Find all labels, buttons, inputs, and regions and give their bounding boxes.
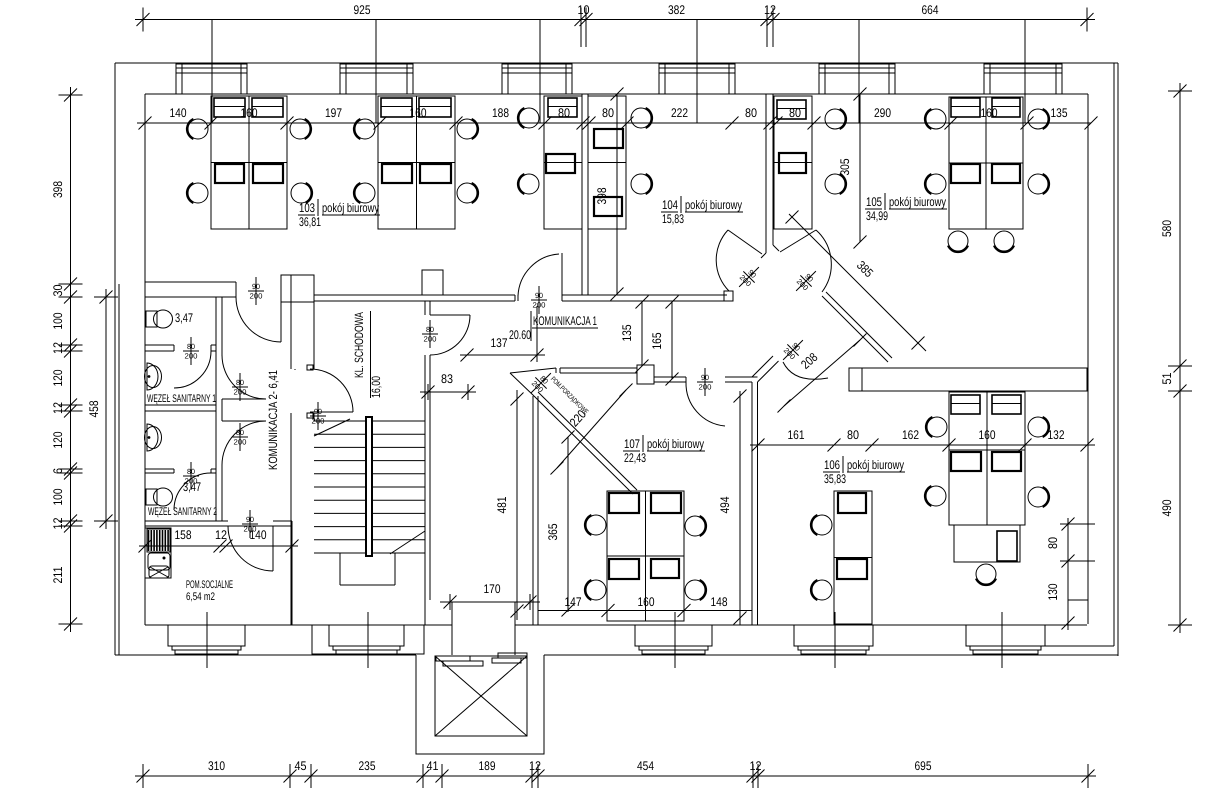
svg-text:160: 160: [978, 428, 995, 442]
elevator alcove walls: [451, 602, 453, 655]
svg-text:80: 80: [745, 106, 757, 120]
door room107: [686, 382, 725, 426]
dim room104 398 vertical: [616, 94, 618, 295]
wall room103 bottom over sanitary: [145, 281, 236, 283]
wall room107 top diagonal cap: [752, 356, 773, 377]
toilet WC1: [146, 311, 157, 327]
svg-text:160: 160: [637, 595, 654, 609]
wall room106 top block y368-391: [849, 368, 1087, 391]
svg-text:148: 148: [710, 595, 727, 609]
dim 165 vertical corridor: [671, 302, 673, 379]
svg-text:165: 165: [650, 332, 664, 349]
dim interior top rooms: [137, 122, 1091, 124]
svg-text:83: 83: [441, 372, 453, 386]
elevator door right: [498, 653, 527, 658]
wall stairs right x425-430: [424, 301, 426, 315]
wall sanitary right vertical x216-222: [215, 297, 217, 521]
svg-text:160: 160: [240, 106, 257, 120]
svg-text:35,83: 35,83: [824, 472, 846, 486]
svg-text:12: 12: [51, 517, 65, 529]
wall outer right inner line: [1113, 63, 1115, 646]
dim 80 130 room106 interior: [1067, 518, 1069, 630]
wall outer top: [115, 62, 1118, 64]
svg-text:105: 105: [866, 195, 882, 209]
door junction left arc: [716, 230, 729, 291]
svg-text:365: 365: [546, 523, 560, 540]
dim 494 vertical room106: [739, 391, 741, 625]
room106 bottom-right notch: [1067, 600, 1069, 624]
wall inner right: [1087, 94, 1089, 624]
door pom socjalne: [272, 526, 274, 571]
svg-text:80: 80: [1046, 537, 1060, 549]
svg-text:12: 12: [764, 3, 776, 17]
svg-text:30: 30: [51, 284, 65, 296]
dim top window extension lines: [211, 20, 213, 124]
wall 104/105 end notch: [761, 253, 766, 258]
svg-text:147: 147: [564, 595, 581, 609]
svg-text:pokój biurowy: pokój biurowy: [685, 198, 743, 212]
dim room107 bottom chain: [602, 604, 615, 617]
room105 desk cluster right: [949, 97, 1023, 229]
svg-text:398: 398: [595, 187, 609, 204]
svg-text:pokój biurowy: pokój biurowy: [889, 195, 947, 209]
svg-text:120: 120: [51, 431, 65, 448]
window top W1: [176, 63, 247, 65]
dim top wall extension lines: [580, 20, 582, 47]
dim chain right: [1179, 83, 1181, 633]
svg-text:290: 290: [874, 106, 891, 120]
svg-text:170: 170: [483, 582, 500, 596]
door junction right arc: [816, 230, 831, 292]
wall corridor/room107 x533-538: [532, 396, 534, 625]
svg-text:100: 100: [51, 488, 65, 505]
corner block KOM1 junction: [724, 291, 733, 301]
svg-text:305: 305: [838, 158, 852, 175]
svg-text:pokój biurowy: pokój biurowy: [647, 437, 705, 451]
svg-text:695: 695: [914, 759, 931, 773]
window bottom B3: [635, 625, 712, 646]
svg-text:120: 120: [51, 369, 65, 386]
svg-text:162: 162: [902, 428, 919, 442]
svg-text:3,47: 3,47: [175, 311, 193, 325]
svg-text:12: 12: [215, 528, 227, 542]
svg-text:490: 490: [1160, 499, 1174, 516]
window top W5: [819, 63, 895, 65]
room103 desk cluster 2: [378, 96, 455, 229]
elevator car: [435, 656, 527, 736]
svg-text:41: 41: [426, 759, 438, 773]
svg-text:KOMUNIKACJA 1: KOMUNIKACJA 1: [533, 314, 597, 328]
stair window recess: [312, 625, 424, 654]
dim 481 vertical corridor: [516, 390, 518, 620]
kitchen unit pom socjalne: [145, 528, 171, 578]
svg-text:12: 12: [749, 759, 761, 773]
svg-text:80: 80: [847, 428, 859, 442]
staircase break lines: [314, 419, 350, 436]
window bottom B5: [966, 625, 1045, 646]
svg-text:188: 188: [492, 106, 509, 120]
dim chain bottom: [135, 775, 1096, 777]
room106 chairs right: [927, 417, 947, 437]
window bottom B4: [794, 625, 873, 646]
svg-text:398: 398: [51, 181, 65, 198]
svg-text:34,99: 34,99: [866, 209, 888, 223]
room107 desk cluster: [607, 491, 684, 621]
wall stairs left x295-314: [290, 302, 292, 369]
svg-text:80: 80: [789, 106, 801, 120]
dim 135 vertical corridor: [641, 302, 643, 366]
room105 chairs cluster: [926, 109, 946, 129]
wall outer left inner line: [118, 284, 120, 655]
wall toilet1/sink1 y345-351: [145, 344, 174, 346]
svg-text:140: 140: [249, 528, 266, 542]
door storage: [525, 367, 556, 398]
room105 desk left: [774, 96, 812, 229]
svg-text:235: 235: [358, 759, 375, 773]
stairs jamb notches: [307, 365, 313, 370]
svg-text:580: 580: [1160, 220, 1174, 237]
room103 chairs cluster1: [188, 119, 208, 139]
svg-text:140: 140: [169, 106, 186, 120]
dim chain left: [70, 87, 72, 632]
svg-text:494: 494: [718, 496, 732, 513]
room103 desk cluster 1: [211, 96, 287, 229]
svg-text:pokój biurowy: pokój biurowy: [322, 201, 380, 215]
window bottom B1: [168, 625, 245, 646]
svg-text:pokój biurowy: pokój biurowy: [847, 458, 905, 472]
wall room107 top y377-382: [654, 376, 686, 378]
room105 chairs left: [825, 109, 845, 129]
toilet WC2: [146, 489, 157, 505]
door room103 to KOM2: [280, 297, 282, 342]
wall pom right x292: [291, 521, 293, 625]
svg-text:107: 107: [624, 437, 640, 451]
wall room107/106 x752-757.5: [751, 382, 753, 625]
window bottom B2: [329, 625, 404, 646]
flue block room103: [422, 270, 443, 295]
svg-text:382: 382: [668, 3, 685, 17]
svg-text:45: 45: [294, 759, 306, 773]
svg-text:KOMUNIKACJA 2- 6,41: KOMUNIKACJA 2- 6,41: [266, 370, 280, 470]
wall outer right: [1117, 63, 1119, 656]
wall toilet2/pom y521-526: [145, 520, 222, 522]
svg-text:12: 12: [51, 342, 65, 354]
dim pom socjalne chain: [139, 545, 298, 547]
svg-text:KL. SCHODOWA: KL. SCHODOWA: [352, 312, 366, 378]
svg-text:12: 12: [51, 402, 65, 414]
dim 220 diagonal: [557, 390, 626, 468]
svg-text:664: 664: [921, 3, 938, 17]
door toilet2: [174, 473, 211, 510]
svg-text:130: 130: [1046, 583, 1060, 600]
wall sink2/toilet2 y469-473: [145, 468, 174, 470]
svg-text:160: 160: [409, 106, 426, 120]
svg-text:POM.SOCJALNE: POM.SOCJALNE: [186, 579, 233, 591]
wall outer bottom: [115, 654, 416, 656]
staircase treads: [314, 420, 366, 422]
svg-text:80: 80: [558, 106, 570, 120]
dim 170 elevator: [440, 601, 540, 603]
room107 chairs: [586, 515, 606, 535]
sink 1: [147, 363, 158, 390]
storage top wall double: [560, 367, 637, 369]
svg-text:222: 222: [671, 106, 688, 120]
svg-text:12: 12: [529, 759, 541, 773]
wall room104/105 x766-773: [765, 94, 767, 253]
room106 desk left column: [834, 491, 872, 624]
svg-text:20.60: 20.60: [509, 328, 531, 342]
svg-text:103: 103: [299, 201, 315, 215]
wall pier KOM2/stairs top block: [281, 275, 314, 302]
wall sink1/sink2 y405-411: [145, 404, 216, 406]
svg-text:100: 100: [51, 312, 65, 329]
bottom-right wall lines: [1045, 645, 1114, 647]
window top W3: [502, 63, 572, 65]
wall room103/104 x582-588: [581, 94, 583, 295]
svg-text:3,47: 3,47: [183, 480, 201, 494]
svg-text:80: 80: [602, 106, 614, 120]
room104 chairs left: [519, 108, 539, 128]
svg-text:10: 10: [577, 3, 589, 17]
svg-text:36,81: 36,81: [299, 215, 321, 229]
door stairs to corridor: [430, 314, 470, 316]
svg-text:104: 104: [662, 198, 678, 212]
dim left 458 chain: [105, 289, 107, 529]
svg-text:WĘZEŁ SANITARNY 2: WĘZEŁ SANITARNY 2: [148, 506, 217, 518]
door toilet1: [174, 351, 211, 388]
window top W6: [984, 63, 1062, 65]
wall corridor top right segment: [562, 294, 727, 296]
svg-text:161: 161: [787, 428, 804, 442]
dim 208 diagonal: [784, 340, 860, 406]
room103 chairs cluster2: [355, 119, 375, 139]
svg-text:458: 458: [87, 400, 101, 417]
wall inner bottom: [145, 624, 452, 626]
room106 side table: [954, 525, 1020, 562]
wall stairs top y295-301: [314, 294, 515, 296]
svg-text:189: 189: [478, 759, 495, 773]
wall inner left: [144, 94, 146, 625]
room104 desk left: [544, 96, 582, 229]
svg-text:454: 454: [637, 759, 654, 773]
staircase landing below: [339, 553, 341, 585]
dim room105 305 vertical: [859, 94, 861, 242]
window top W2: [340, 63, 413, 65]
svg-text:481: 481: [495, 496, 509, 513]
door KOM2 to stairs: [310, 411, 353, 413]
dim 137 corridor: [460, 354, 545, 356]
block at 135 dim: [637, 365, 654, 384]
svg-text:22,43: 22,43: [624, 451, 646, 465]
dim chain top: [135, 19, 1095, 21]
svg-text:51: 51: [1160, 372, 1174, 384]
svg-text:15,83: 15,83: [662, 212, 684, 226]
room107 floor dim line y610.5: [538, 610, 752, 612]
window top W4: [659, 63, 735, 65]
dim 365 vertical corridor: [567, 437, 569, 612]
wall inner top: [145, 93, 1088, 95]
svg-text:158: 158: [174, 528, 191, 542]
storage hypotenuse diagonal wall: [534, 396, 633, 494]
svg-text:6,54 m2: 6,54 m2: [186, 591, 215, 603]
svg-text:135: 135: [1050, 106, 1067, 120]
dim bottom window extension lines: [206, 612, 208, 668]
dim room106 top chain: [750, 444, 1095, 446]
dim 83 stairs door: [420, 391, 476, 393]
svg-text:WĘZEŁ SANITARNY 1: WĘZEŁ SANITARNY 1: [147, 393, 216, 405]
svg-text:132: 132: [1047, 428, 1064, 442]
svg-text:310: 310: [208, 759, 225, 773]
svg-text:106: 106: [824, 458, 840, 472]
room106 desk cluster right: [949, 392, 1025, 525]
staircase stringer: [366, 417, 372, 556]
svg-text:925: 925: [353, 3, 370, 17]
door diagonal to room106: [783, 362, 828, 379]
wall diagonal corridor upper-right: [822, 296, 888, 362]
dim 385 diagonal: [789, 214, 926, 351]
door room103 to corridor: [561, 253, 563, 297]
door sink2 to KOM2: [222, 420, 266, 422]
svg-text:135: 135: [620, 324, 634, 341]
door junction right leaf: [780, 230, 816, 252]
elevator door left: [436, 656, 470, 661]
svg-text:137: 137: [490, 336, 507, 350]
svg-text:197: 197: [325, 106, 342, 120]
svg-text:160: 160: [980, 106, 997, 120]
door junction left leaf: [728, 230, 762, 254]
room104 desk right: [588, 96, 626, 229]
sink 2: [147, 424, 158, 451]
room106 chairs left: [812, 515, 832, 535]
elevator shaft: [416, 655, 544, 754]
wall outer left: [114, 63, 116, 655]
door sink1 to KOM2: [222, 398, 266, 400]
svg-text:211: 211: [51, 566, 65, 583]
room104 chairs right: [631, 108, 651, 128]
svg-text:16,00: 16,00: [369, 376, 383, 398]
storage triangle pom porzadkowe: [510, 368, 556, 373]
